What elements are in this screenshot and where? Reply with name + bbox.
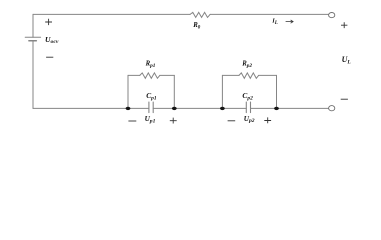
svg-text:R0: R0 bbox=[192, 22, 201, 31]
node junction dot 1 bbox=[126, 107, 131, 110]
plus sign battery top bbox=[45, 19, 52, 25]
plus sign Up2 right bbox=[264, 117, 271, 123]
plus sign terminal top-right bbox=[341, 22, 347, 28]
svg-text:Cp2: Cp2 bbox=[242, 91, 253, 101]
battery Uocv short plate bbox=[29, 40, 36, 42]
Rp2 loop top-right horizontal bbox=[259, 74, 277, 76]
capacitor Cp2 right plate bbox=[250, 102, 252, 113]
capacitor Cp2 left plate bbox=[245, 102, 247, 113]
wire left vertical upper bbox=[32, 14, 34, 37]
svg-text:Up2: Up2 bbox=[244, 115, 255, 124]
plus sign Up1 right bbox=[170, 118, 177, 124]
node junction dot 4 bbox=[274, 107, 279, 110]
capacitor Cp1 left plate bbox=[148, 102, 150, 113]
svg-text:Rp1: Rp1 bbox=[145, 61, 156, 69]
Rp1 loop top-right horizontal bbox=[160, 74, 175, 76]
minus sign Up2 left bbox=[228, 120, 236, 122]
Rp1 loop top-left horizontal bbox=[128, 74, 140, 76]
resistor Rp1 zigzag bbox=[140, 73, 160, 78]
wire bottom segment 1 bbox=[33, 107, 149, 109]
minus sign Up1 left bbox=[128, 120, 136, 122]
Rp2 loop left vertical bbox=[221, 75, 223, 108]
battery Uocv long plate bbox=[25, 36, 40, 38]
svg-text:Cp1: Cp1 bbox=[146, 91, 157, 101]
svg-text:Uocv: Uocv bbox=[45, 35, 59, 45]
wire top-right horizontal bbox=[210, 13, 329, 15]
svg-text:IL: IL bbox=[271, 18, 278, 27]
Rp1 loop left vertical bbox=[127, 75, 129, 108]
wire bottom segment 2 bbox=[153, 107, 246, 109]
resistor Rp2 zigzag bbox=[239, 73, 259, 78]
minus sign terminal bottom-right bbox=[341, 98, 348, 100]
capacitor Cp1 right plate bbox=[152, 102, 154, 113]
Rp2 loop top-left horizontal bbox=[222, 74, 239, 76]
current IL arrow bbox=[286, 20, 294, 23]
svg-text:Rp2: Rp2 bbox=[241, 61, 252, 69]
Rp1 loop right vertical bbox=[173, 75, 175, 108]
wire top-left horizontal bbox=[33, 13, 190, 15]
Rp2 loop right vertical bbox=[276, 75, 278, 108]
terminal negative bottom-right bbox=[329, 106, 335, 111]
svg-text:Up1: Up1 bbox=[145, 115, 156, 124]
resistor R0 zigzag bbox=[190, 12, 210, 17]
wire bottom segment 3 bbox=[251, 107, 329, 109]
node junction dot 3 bbox=[220, 107, 225, 110]
terminal positive top-right bbox=[329, 13, 335, 18]
wire left vertical lower bbox=[32, 41, 34, 109]
node junction dot 2 bbox=[172, 107, 177, 110]
svg-text:UL: UL bbox=[342, 55, 352, 65]
minus sign battery bottom bbox=[46, 56, 53, 58]
